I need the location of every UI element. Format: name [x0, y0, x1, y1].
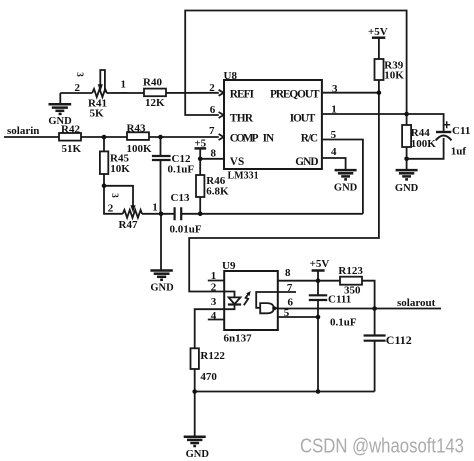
svg-text:12K: 12K: [145, 97, 165, 109]
svg-text:8: 8: [211, 148, 217, 160]
junction R122/bottom rail: [192, 389, 197, 394]
svg-text:2: 2: [108, 202, 114, 214]
svg-text:COMP: COMP: [230, 132, 259, 144]
svg-text:R40: R40: [143, 76, 162, 88]
svg-text:R123: R123: [338, 265, 363, 277]
U9 pin1 stub: [208, 280, 224, 282]
svg-text:1: 1: [331, 103, 337, 115]
svg-text:VS: VS: [230, 156, 244, 168]
svg-text:U9: U9: [222, 260, 236, 272]
svg-text:+5V: +5V: [368, 26, 388, 38]
wire R122 to bottom rail: [194, 369, 196, 392]
junction U9 gate output: [272, 306, 276, 310]
svg-text:solarout: solarout: [397, 297, 436, 309]
svg-text:IOUT: IOUT: [290, 112, 316, 124]
svg-text:C13: C13: [171, 192, 190, 204]
svg-text:GND: GND: [295, 156, 318, 168]
wire R45 top lead: [103, 137, 105, 151]
svg-text:4: 4: [331, 146, 337, 158]
wire U9 pin6 solarout: [278, 308, 441, 310]
U9 internal gate output: [274, 307, 278, 309]
svg-text:GND: GND: [334, 183, 358, 194]
svg-text:+5V: +5V: [310, 258, 330, 270]
potentiometer R47 wiper from R45 node: [104, 186, 133, 207]
wire PREQOUT loop to U9 LED anode: [189, 93, 379, 292]
wire C13 node GND drop: [160, 214, 162, 270]
svg-text:U8: U8: [224, 70, 238, 82]
svg-text:10K: 10K: [110, 163, 130, 175]
svg-text:5: 5: [284, 307, 290, 319]
wire IOUT row: [322, 114, 444, 131]
capacitor C12 plates: [152, 156, 171, 160]
potentiometer R41 zigzag: [92, 89, 107, 97]
U9 internal LED cathode wire to pin3: [224, 305, 234, 310]
svg-text:1uf: 1uf: [451, 145, 467, 157]
junction solarout/R123/C112: [372, 306, 377, 311]
ground GND (C13 node): [150, 271, 172, 280]
svg-text:R47: R47: [119, 219, 138, 231]
svg-text:6.8K: 6.8K: [206, 185, 229, 197]
svg-text:10K: 10K: [384, 70, 404, 82]
potentiometer R41 wiper hook: [100, 70, 105, 92]
pin arrow THR: [219, 112, 224, 118]
svg-text:470: 470: [200, 371, 217, 383]
wire +5V to R39: [378, 38, 380, 59]
capacitor C112 plates: [364, 336, 386, 341]
U9 internal LED triangle: [229, 297, 241, 304]
junction solarin/R45: [102, 135, 107, 140]
svg-text:GND: GND: [395, 183, 419, 194]
resistor R44: [402, 125, 411, 147]
U9 internal enable wire from pin7: [256, 292, 278, 308]
wire R123 to solarout node: [362, 281, 375, 309]
svg-text:2: 2: [209, 82, 215, 94]
svg-text:7: 7: [287, 282, 293, 294]
wire bottom ground rail: [195, 391, 375, 393]
wire R39 bottom lead: [378, 80, 380, 93]
wiper arrowhead R41: [98, 84, 103, 92]
svg-text:5: 5: [331, 129, 337, 141]
svg-text:100K: 100K: [127, 143, 153, 155]
potentiometer R47 zigzag: [123, 210, 142, 218]
IC U8 box: [224, 80, 322, 169]
wire U9 pin3 to R122: [195, 309, 225, 348]
wire THR net top rail: [185, 11, 406, 116]
capacitor C12 leads: [160, 137, 162, 214]
junction R46/C13 row: [198, 212, 203, 217]
junction solarin/C12: [158, 135, 163, 140]
ground GND (R41 pin 2): [49, 104, 72, 114]
svg-text:C112: C112: [386, 333, 412, 347]
wire C111 bottom through pin5 to rail: [317, 300, 319, 391]
U9 internal gate: [260, 303, 274, 313]
svg-text:1: 1: [121, 79, 127, 91]
wire R47 pin1 to C13 node: [142, 213, 174, 215]
svg-text:0.01uF: 0.01uF: [170, 224, 202, 236]
U9 internal photon arrowhead: [246, 291, 251, 296]
wire R44 leads: [406, 114, 408, 159]
pin arrow REFI: [219, 90, 224, 96]
junction R44/C11 bottom: [404, 157, 409, 162]
resistor R39: [375, 59, 384, 80]
wire bottom rail to GND: [194, 392, 196, 437]
wire pin8 row to R123: [278, 280, 340, 282]
wire U9 pin5: [278, 316, 318, 318]
svg-text:3: 3: [110, 193, 120, 198]
svg-text:R122: R122: [200, 350, 225, 362]
svg-text:GND: GND: [150, 282, 174, 293]
wiper arrowhead R47: [130, 205, 135, 212]
svg-text:GND: GND: [48, 116, 72, 127]
pin arrow COMP IN: [219, 134, 224, 140]
resistor R45: [100, 151, 108, 174]
wire R44 to GND: [406, 159, 408, 170]
capacitor C11 plus sign: [443, 121, 450, 128]
svg-text:GND: GND: [186, 449, 210, 460]
svg-text:C111: C111: [328, 294, 351, 306]
svg-text:6n137: 6n137: [224, 332, 253, 344]
svg-text:7: 7: [209, 125, 215, 137]
svg-text:100K: 100K: [411, 138, 437, 150]
svg-text:5K: 5K: [90, 107, 105, 119]
wire pin4 to GND: [322, 158, 346, 169]
svg-text:1: 1: [152, 201, 158, 213]
svg-text:0.1uF: 0.1uF: [168, 163, 195, 175]
junction R45/R47 wiper: [102, 184, 107, 189]
wire C111 top lead: [317, 281, 319, 295]
U9 internal LED cathode bar: [228, 303, 241, 305]
wire U9 pin7 stub: [278, 291, 296, 293]
U9 pin4 stub: [208, 319, 224, 321]
wire GND drop left of R41: [59, 93, 61, 104]
wire R41 row (pin2 GND to REFI): [60, 92, 92, 94]
svg-text:0.1uF: 0.1uF: [330, 317, 357, 329]
junction IOUT/top rail: [404, 112, 409, 117]
svg-text:LM331: LM331: [228, 170, 259, 181]
svg-text:3: 3: [211, 296, 217, 308]
svg-text:51K: 51K: [62, 143, 82, 155]
svg-text:3: 3: [332, 83, 338, 95]
capacitor C111 plates: [309, 295, 327, 300]
svg-text:CSDN @whaosoft143: CSDN @whaosoft143: [300, 435, 464, 457]
resistor R42: [59, 133, 81, 141]
svg-text:+5: +5: [194, 137, 206, 149]
capacitor C13 plates: [175, 207, 182, 220]
ground GND (R44): [396, 170, 418, 179]
wire R/C net: [322, 140, 363, 214]
svg-text:R44: R44: [411, 127, 430, 139]
junction pin5/C111: [316, 315, 321, 320]
junction +5V/pin8 row: [316, 278, 321, 283]
junction C13/R47/GND: [159, 212, 164, 217]
resistor R123: [340, 277, 362, 285]
capacitor C11 bottom curved plate: [436, 136, 452, 141]
svg-text:3: 3: [75, 72, 85, 77]
svg-text:2: 2: [211, 282, 217, 294]
resistor R46: [196, 175, 204, 197]
svg-text:R43: R43: [127, 123, 146, 135]
resistor R122: [191, 348, 199, 369]
svg-text:R/C: R/C: [301, 133, 318, 145]
svg-text:C11: C11: [452, 125, 470, 137]
svg-text:PREQOUT: PREQOUT: [270, 89, 320, 101]
wire solarin input line: [4, 136, 219, 138]
svg-text:6: 6: [210, 104, 216, 116]
ground GND (U8 pin 4): [335, 170, 357, 179]
wire PREQOUT to R39: [322, 92, 379, 94]
ground GND (bottom): [184, 437, 206, 446]
svg-text:IN: IN: [263, 132, 275, 144]
junction +5/VS pin8: [198, 157, 203, 162]
svg-text:REFI: REFI: [230, 89, 255, 101]
svg-text:2: 2: [75, 82, 81, 94]
wire C13 right to R/C row: [182, 213, 363, 215]
wire C11 bottom to R44 bottom: [407, 138, 444, 159]
IC U9 box: [224, 271, 278, 330]
capacitor C11 top plate: [436, 131, 451, 133]
wire R46 bottom lead: [199, 197, 201, 214]
wire C112 top lead: [374, 309, 376, 336]
U9 internal photon bolt: [244, 293, 249, 305]
wire +5V to pin8 row: [317, 271, 319, 281]
svg-text:8: 8: [285, 267, 291, 279]
wire R45 bottom to R47 pin2: [104, 174, 123, 214]
power +5V bar (U9): [312, 269, 325, 272]
junction C111 gnd/bottom rail: [316, 389, 321, 394]
power +5V bar (R39): [372, 36, 385, 39]
svg-text:solarin: solarin: [7, 125, 39, 137]
resistor R40: [144, 89, 166, 97]
svg-text:4: 4: [211, 310, 217, 322]
wire +5 to VS pin8 and R46: [199, 148, 201, 175]
junction PREQOUT/R39: [377, 90, 382, 95]
wire C112 bottom lead: [374, 341, 376, 391]
U9 internal LED anode wire: [224, 292, 234, 298]
resistor R43: [127, 132, 149, 140]
svg-text:1: 1: [211, 270, 217, 282]
wire VS pin8: [200, 158, 224, 160]
svg-text:THR: THR: [230, 112, 254, 124]
power +5 bar (VS): [195, 147, 207, 150]
